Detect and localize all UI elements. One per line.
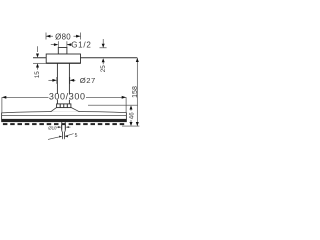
svg-text:Ø10: Ø10 [48,126,57,131]
head right edge [125,112,127,119]
bottom ext line [122,125,139,127]
svg-text:25: 25 [100,65,107,73]
plate bottom emphasis [46,62,80,64]
svg-text:300/300: 300/300 [49,91,86,101]
head left edge [1,113,3,120]
skirt under collar [51,107,80,112]
pipe lower segment [57,100,69,104]
tube dim upper [56,125,70,130]
dim Ø80 [46,33,81,40]
svg-text:Ø27: Ø27 [80,76,96,85]
shower head body top face line [2,112,127,113]
tube dim lower [48,134,74,140]
svg-text:5: 5 [75,133,78,139]
spray face band [1,119,127,122]
dim G1/2 [51,41,71,48]
left mini dim (plate height) [33,46,46,69]
svg-text:46: 46 [128,112,135,119]
right mini dim (stub above ceiling) [100,47,107,49]
ceiling plate (escutcheon Ø80) [46,54,80,63]
svg-text:15: 15 [34,71,41,79]
dim 300/300 [2,97,126,113]
pipe upper segment [57,63,69,94]
head rim line [2,114,127,116]
dim Ø27 [48,77,75,84]
ext line 46 top [88,104,138,106]
svg-text:Ø80: Ø80 [55,32,71,41]
collar (ribbed nut) [57,104,71,108]
svg-text:G1/2: G1/2 [71,40,91,49]
dim 46 [130,109,132,122]
ceiling line [33,57,137,59]
dim 158 [136,58,138,126]
central tube below head [62,122,65,139]
nozzle dashes [3,123,124,125]
connector stub G1/2 [58,48,67,55]
svg-text:158: 158 [132,86,139,98]
